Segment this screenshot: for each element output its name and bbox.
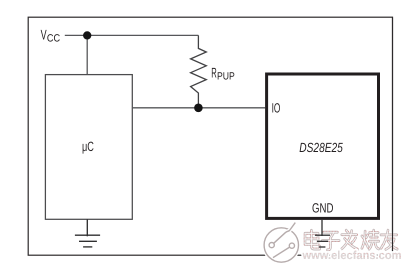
resistor RPUP value label [211,64,235,82]
svg-text:IO: IO [272,101,281,116]
svg-text:R: R [211,64,217,80]
ground under uC [75,219,100,247]
svg-text:GND: GND [312,201,334,216]
svg-text:CC: CC [47,32,61,44]
svg-text:DS28E25: DS28E25 [299,140,343,155]
border frame right edge over watermark [392,17,394,251]
junction node on VCC rail [83,31,91,39]
border frame [28,17,392,255]
watermark CJK inner highlight [305,230,397,250]
watermark logo circle [264,223,298,263]
wire VCC horizontal rail [65,34,199,36]
watermark url text [302,250,402,262]
watermark CJK strokes [305,230,397,250]
watermark text halo [305,230,397,250]
net VCC label [41,26,61,44]
resistor RPUP [191,35,207,107]
junction node resistor to IO wire [194,104,203,113]
svg-text:μC: μC [82,139,94,154]
wire VCC branch down to uC [86,35,88,74]
svg-text:www.elecfans.com: www.elecfans.com [302,250,402,262]
microcontroller U1 box [45,75,132,220]
ground under DS28E25 GND pin [315,220,330,247]
DS28E25 U2 box [267,74,379,218]
svg-text:PUP: PUP [217,70,235,82]
wire IO bus from uC to DS28E25 [132,107,265,109]
